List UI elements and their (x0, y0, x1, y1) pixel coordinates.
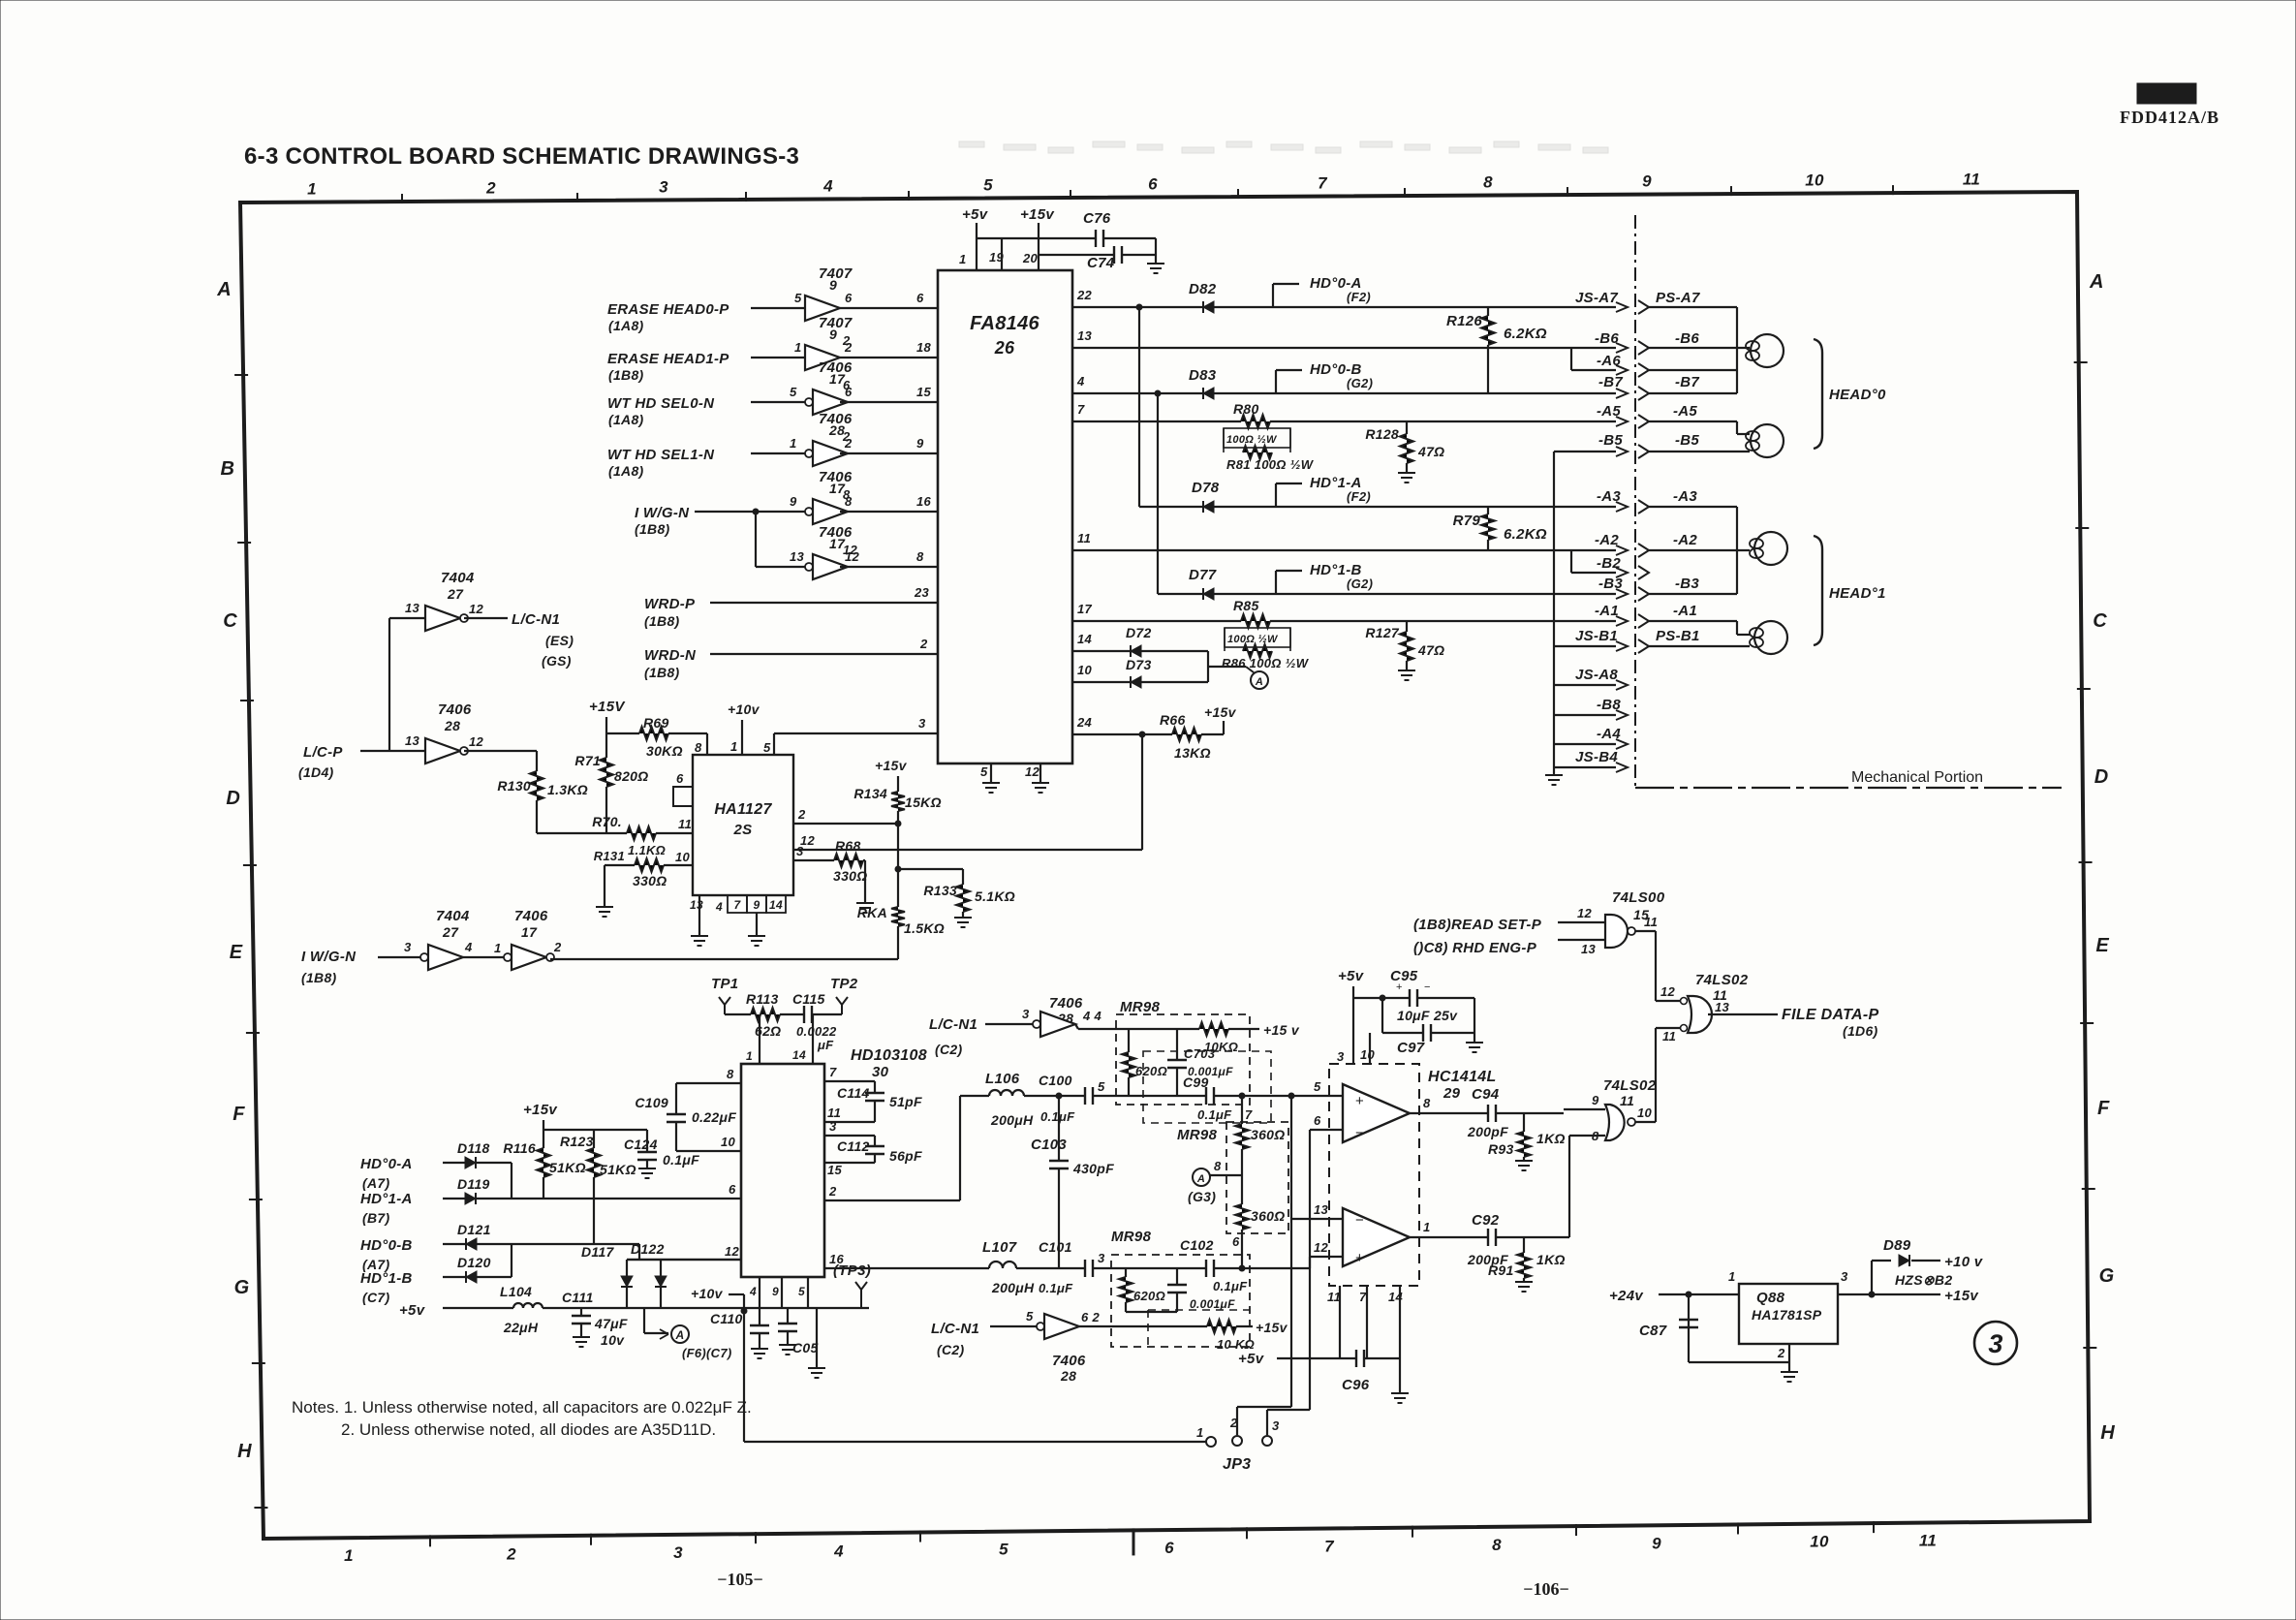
svg-text:(C2): (C2) (937, 1342, 964, 1357)
svg-text:5: 5 (999, 1541, 1008, 1559)
svg-text:-B2: -B2 (1597, 555, 1621, 572)
svg-text:WT HD SEL1-N: WT HD SEL1-N (607, 447, 715, 463)
svg-text:8: 8 (1592, 1129, 1599, 1143)
svg-text:JP3: JP3 (1223, 1456, 1251, 1473)
svg-text:+15V: +15V (589, 699, 626, 715)
svg-text:13: 13 (405, 733, 420, 748)
svg-text:−: − (1424, 981, 1430, 993)
svg-text:MR98: MR98 (1120, 999, 1161, 1015)
svg-text:-A2: -A2 (1595, 532, 1619, 548)
svg-text:R68: R68 (835, 838, 861, 854)
svg-text:-A6: -A6 (1597, 353, 1621, 369)
svg-text:3: 3 (659, 177, 668, 196)
svg-text:R86 100Ω ½W: R86 100Ω ½W (1222, 656, 1310, 670)
svg-text:TP2: TP2 (830, 976, 858, 992)
svg-text:11: 11 (1662, 1029, 1676, 1044)
svg-text:1.3KΩ: 1.3KΩ (547, 782, 588, 797)
svg-text:+15v: +15v (1944, 1288, 1979, 1304)
svg-text:+10 v: +10 v (1944, 1254, 1984, 1270)
svg-text:D: D (226, 788, 240, 809)
svg-text:13KΩ: 13KΩ (1174, 745, 1211, 761)
svg-text:13: 13 (405, 601, 420, 615)
svg-text:5: 5 (1314, 1079, 1321, 1094)
svg-text:17: 17 (521, 924, 538, 940)
svg-text:L107: L107 (982, 1239, 1017, 1256)
svg-text:51KΩ: 51KΩ (549, 1160, 586, 1175)
svg-text:+10v: +10v (691, 1286, 724, 1301)
svg-text:15: 15 (916, 385, 932, 399)
svg-text:1: 1 (794, 340, 802, 355)
svg-text:11: 11 (678, 817, 692, 831)
svg-text:JS-B1: JS-B1 (1575, 628, 1618, 644)
svg-text:HEAD°1: HEAD°1 (1829, 585, 1886, 602)
svg-text:360Ω: 360Ω (1251, 1127, 1286, 1142)
svg-text:C703: C703 (1184, 1046, 1216, 1061)
svg-text:6.2KΩ: 6.2KΩ (1504, 526, 1547, 543)
svg-text:2: 2 (506, 1545, 516, 1564)
svg-text:-A1: -A1 (1673, 603, 1697, 619)
svg-text:6: 6 (729, 1182, 736, 1197)
svg-text:+15v: +15v (1204, 704, 1237, 720)
svg-text:12: 12 (1660, 984, 1676, 999)
svg-text:R85: R85 (1233, 598, 1259, 613)
svg-text:L106: L106 (985, 1071, 1020, 1087)
svg-text:23: 23 (914, 585, 930, 600)
svg-text:12: 12 (725, 1244, 740, 1259)
svg-text:C76: C76 (1083, 210, 1111, 227)
svg-text:74LS02: 74LS02 (1695, 972, 1749, 988)
svg-text:FILE DATA-P: FILE DATA-P (1782, 1007, 1878, 1023)
svg-text:12: 12 (469, 602, 484, 616)
svg-text:D118: D118 (457, 1140, 490, 1156)
svg-text:L/C-P: L/C-P (303, 744, 343, 761)
svg-text:(A7): (A7) (362, 1175, 389, 1191)
svg-text:HZS⊗B2: HZS⊗B2 (1895, 1272, 1952, 1288)
svg-text:13: 13 (690, 898, 703, 912)
svg-text:+5v: +5v (1238, 1351, 1265, 1367)
svg-text:C87: C87 (1639, 1323, 1667, 1339)
svg-text:3: 3 (404, 940, 412, 954)
svg-text:6: 6 (1164, 1539, 1174, 1557)
svg-text:JS-A7: JS-A7 (1575, 290, 1618, 306)
svg-text:R130: R130 (497, 778, 531, 794)
svg-text:F: F (233, 1104, 245, 1125)
svg-text:-A3: -A3 (1673, 488, 1697, 505)
svg-text:D72: D72 (1126, 625, 1152, 640)
svg-text:+: + (1396, 981, 1402, 993)
svg-text:()C8) RHD ENG-P: ()C8) RHD ENG-P (1413, 940, 1537, 956)
svg-text:2: 2 (1777, 1346, 1785, 1360)
svg-text:9: 9 (1652, 1534, 1661, 1552)
svg-text:R134: R134 (853, 786, 887, 801)
svg-text:L/C-N1: L/C-N1 (931, 1321, 979, 1337)
svg-text:7404: 7404 (441, 570, 475, 586)
svg-text:11: 11 (1919, 1532, 1937, 1550)
svg-text:(G3): (G3) (1188, 1189, 1216, 1204)
svg-text:(TP3): (TP3) (833, 1262, 871, 1279)
svg-text:(1A8): (1A8) (608, 412, 644, 427)
svg-text:10: 10 (721, 1135, 736, 1149)
svg-text:5: 5 (1098, 1079, 1105, 1094)
svg-text:5: 5 (980, 764, 988, 779)
svg-text:-B5: -B5 (1675, 432, 1699, 449)
svg-text:8: 8 (916, 549, 924, 564)
svg-text:−: − (1355, 1125, 1364, 1141)
svg-text:0.22μF: 0.22μF (692, 1109, 736, 1125)
svg-text:(G2): (G2) (1347, 376, 1373, 390)
svg-text:6: 6 (1148, 175, 1158, 194)
svg-text:(1D4): (1D4) (298, 764, 334, 780)
svg-text:14: 14 (1388, 1290, 1404, 1304)
svg-text:13: 13 (1314, 1202, 1329, 1217)
svg-text:-A2: -A2 (1673, 532, 1697, 548)
svg-text:9: 9 (916, 436, 924, 451)
svg-text:H: H (237, 1441, 252, 1462)
svg-text:7404: 7404 (436, 908, 470, 924)
svg-text:E: E (230, 942, 243, 963)
svg-text:1: 1 (746, 1049, 753, 1063)
svg-text:2S: 2S (733, 822, 753, 838)
svg-text:+15v: +15v (1256, 1320, 1288, 1335)
svg-text:29: 29 (1443, 1085, 1461, 1102)
svg-text:C111: C111 (562, 1290, 594, 1305)
svg-text:-B7: -B7 (1675, 374, 1699, 390)
svg-text:D121: D121 (457, 1222, 491, 1237)
svg-text:R81 100Ω ½W: R81 100Ω ½W (1226, 457, 1315, 472)
svg-text:4: 4 (464, 940, 473, 954)
svg-text:5.1KΩ: 5.1KΩ (975, 888, 1015, 904)
svg-text:D119: D119 (457, 1176, 490, 1192)
svg-text:D: D (2094, 766, 2109, 788)
svg-text:(1A8): (1A8) (608, 463, 644, 479)
svg-text:R66: R66 (1160, 712, 1186, 728)
svg-text:0.1μF: 0.1μF (1039, 1281, 1073, 1295)
svg-text:11: 11 (1644, 915, 1658, 929)
svg-text:100Ω ½W: 100Ω ½W (1226, 434, 1278, 446)
svg-text:(C7): (C7) (362, 1290, 389, 1305)
svg-text:24: 24 (1076, 715, 1093, 730)
svg-text:10: 10 (1077, 663, 1093, 677)
svg-text:+15v: +15v (875, 758, 908, 773)
svg-text:8: 8 (1492, 1536, 1502, 1554)
svg-text:1: 1 (1196, 1425, 1204, 1440)
svg-text:R80: R80 (1233, 401, 1259, 417)
svg-text:6: 6 (845, 291, 853, 305)
svg-text:C114: C114 (837, 1085, 870, 1101)
svg-text:D120: D120 (457, 1255, 491, 1270)
svg-text:47Ω: 47Ω (1417, 642, 1444, 658)
svg-text:200pF: 200pF (1467, 1124, 1508, 1139)
svg-text:1: 1 (494, 941, 502, 955)
svg-text:16: 16 (916, 494, 932, 509)
svg-text:1: 1 (790, 436, 797, 451)
svg-text:A: A (2089, 271, 2104, 293)
svg-text:G: G (2099, 1265, 2115, 1287)
svg-text:6-3 CONTROL BOARD SCHEMATIC DR: 6-3 CONTROL BOARD SCHEMATIC DRAWINGS-3 (244, 143, 799, 170)
svg-text:TP1: TP1 (711, 976, 738, 992)
svg-text:7: 7 (734, 898, 742, 912)
svg-text:26: 26 (994, 338, 1015, 358)
svg-text:FDD412A/B: FDD412A/B (2120, 108, 2219, 127)
svg-text:-B7: -B7 (1598, 374, 1623, 390)
svg-text:4: 4 (822, 176, 833, 195)
svg-text:(ES): (ES) (545, 633, 574, 648)
svg-text:1: 1 (1423, 1220, 1431, 1234)
svg-text:I W/G-N: I W/G-N (635, 505, 690, 521)
svg-text:100Ω ½W: 100Ω ½W (1227, 634, 1279, 645)
svg-text:7: 7 (1245, 1107, 1253, 1122)
svg-text:+15v: +15v (1020, 206, 1055, 223)
svg-text:10μF 25v: 10μF 25v (1397, 1008, 1458, 1023)
svg-text:13: 13 (790, 549, 805, 564)
svg-text:11: 11 (1963, 171, 1980, 189)
svg-text:14: 14 (1077, 632, 1093, 646)
svg-text:R127: R127 (1365, 625, 1400, 640)
svg-text:D83: D83 (1189, 367, 1217, 384)
svg-text:8: 8 (695, 740, 702, 755)
svg-text:6.2KΩ: 6.2KΩ (1504, 326, 1547, 342)
svg-text:7: 7 (1077, 402, 1085, 417)
svg-text:11: 11 (827, 1106, 841, 1120)
svg-text:74LS00: 74LS00 (1612, 889, 1665, 906)
svg-text:2: 2 (828, 1184, 837, 1199)
svg-text:3: 3 (1337, 1049, 1345, 1064)
svg-text:-B8: -B8 (1597, 697, 1621, 713)
svg-text:360Ω: 360Ω (1251, 1208, 1286, 1224)
svg-text:C112: C112 (837, 1138, 870, 1154)
svg-text:(C2): (C2) (935, 1042, 962, 1057)
svg-text:3: 3 (1988, 1329, 2002, 1358)
svg-text:200μH: 200μH (991, 1280, 1035, 1295)
svg-text:C110: C110 (710, 1311, 743, 1326)
svg-text:+5v: +5v (1338, 968, 1365, 984)
svg-text:HD°1-A: HD°1-A (360, 1191, 413, 1207)
svg-text:14: 14 (769, 898, 783, 912)
svg-text:4 4: 4 4 (1082, 1009, 1101, 1023)
svg-text:Notes. 1. Unless otherwise n: Notes. 1. Unless otherwise noted, all ca… (292, 1398, 752, 1417)
svg-text:C95: C95 (1390, 968, 1418, 984)
svg-text:R71: R71 (574, 753, 601, 768)
svg-text:L104: L104 (500, 1284, 532, 1299)
svg-text:10v: 10v (601, 1332, 625, 1348)
svg-text:-B6: -B6 (1595, 330, 1619, 347)
svg-text:7: 7 (829, 1065, 837, 1079)
svg-text:0.001μF: 0.001μF (1190, 1297, 1235, 1311)
svg-text:(1B8): (1B8) (635, 521, 670, 537)
svg-text:C102: C102 (1180, 1237, 1214, 1253)
svg-text:HD°0-A: HD°0-A (360, 1156, 413, 1172)
svg-text:0.1μF: 0.1μF (663, 1152, 699, 1168)
svg-text:5: 5 (763, 740, 771, 755)
svg-text:5: 5 (790, 385, 797, 399)
svg-text:1KΩ: 1KΩ (1536, 1131, 1566, 1146)
svg-text:ERASE HEAD1-P: ERASE HEAD1-P (607, 351, 729, 367)
svg-text:A: A (216, 279, 232, 300)
svg-text:R79: R79 (1453, 513, 1481, 529)
svg-text:9: 9 (754, 898, 760, 912)
svg-text:28: 28 (1060, 1368, 1076, 1384)
svg-text:7406: 7406 (514, 908, 548, 924)
svg-text:620Ω: 620Ω (1133, 1289, 1165, 1303)
svg-text:−: − (1355, 1212, 1364, 1229)
svg-text:47μF: 47μF (594, 1316, 628, 1331)
svg-text:10: 10 (675, 850, 691, 864)
svg-text:330Ω: 330Ω (633, 873, 667, 888)
svg-text:C124: C124 (624, 1137, 658, 1152)
svg-text:HA1127: HA1127 (714, 801, 772, 818)
svg-text:-B3: -B3 (1675, 576, 1699, 592)
svg-text:5: 5 (983, 176, 993, 195)
svg-text:47Ω: 47Ω (1417, 444, 1444, 459)
svg-text:9: 9 (772, 1285, 779, 1298)
svg-text:10: 10 (1360, 1047, 1376, 1062)
svg-text:15KΩ: 15KΩ (905, 794, 942, 810)
svg-text:9: 9 (829, 327, 837, 342)
svg-text:R113: R113 (746, 991, 779, 1007)
svg-text:(F2): (F2) (1347, 489, 1371, 504)
svg-text:R131: R131 (594, 849, 625, 863)
svg-text:620Ω: 620Ω (1135, 1064, 1167, 1078)
svg-text:HD°0-B: HD°0-B (360, 1237, 413, 1254)
svg-text:1: 1 (1728, 1269, 1736, 1284)
svg-text:-A5: -A5 (1597, 403, 1621, 420)
svg-text:R123: R123 (560, 1134, 594, 1149)
svg-text:R126: R126 (1446, 313, 1482, 329)
svg-text:9: 9 (829, 277, 837, 293)
svg-text:-A3: -A3 (1597, 488, 1621, 505)
svg-text:820Ω: 820Ω (614, 768, 649, 784)
svg-text:+5v: +5v (962, 206, 989, 223)
svg-text:HC1414L: HC1414L (1428, 1069, 1497, 1085)
svg-text:+10v: +10v (728, 701, 760, 717)
svg-text:JS-B4: JS-B4 (1575, 749, 1618, 765)
svg-text:30: 30 (872, 1064, 889, 1080)
svg-text:6: 6 (845, 385, 853, 399)
svg-text:27: 27 (447, 586, 464, 602)
svg-text:10: 10 (1805, 171, 1824, 190)
svg-text:−106−: −106− (1523, 1579, 1569, 1599)
svg-text:8: 8 (727, 1067, 734, 1081)
svg-text:27: 27 (442, 924, 459, 940)
svg-text:10: 10 (1810, 1533, 1829, 1551)
svg-text:C05: C05 (792, 1340, 819, 1355)
svg-text:51KΩ: 51KΩ (600, 1162, 636, 1177)
svg-text:-A5: -A5 (1673, 403, 1697, 420)
svg-text:PS-B1: PS-B1 (1656, 628, 1700, 644)
svg-text:13: 13 (1077, 328, 1093, 343)
svg-text:JS-A8: JS-A8 (1575, 667, 1618, 683)
svg-text:RKA: RKA (857, 905, 887, 920)
svg-text:L/C-N1: L/C-N1 (512, 611, 560, 628)
svg-text:D89: D89 (1883, 1237, 1911, 1254)
svg-text:+15v: +15v (523, 1102, 558, 1118)
svg-text:5: 5 (794, 291, 802, 305)
svg-text:A: A (675, 1328, 685, 1342)
svg-text:9: 9 (790, 494, 797, 509)
svg-text:10 KΩ: 10 KΩ (1217, 1337, 1255, 1352)
svg-text:R116: R116 (503, 1140, 536, 1156)
svg-text:(1B8): (1B8) (644, 665, 680, 680)
svg-text:B: B (221, 458, 235, 480)
svg-text:-B6: -B6 (1675, 330, 1699, 347)
svg-text:+15 v: +15 v (1263, 1022, 1300, 1038)
svg-text:12: 12 (469, 734, 484, 749)
svg-text:C94: C94 (1472, 1086, 1500, 1103)
svg-text:(G2): (G2) (1347, 576, 1373, 591)
svg-text:3: 3 (918, 716, 926, 731)
svg-text:7406: 7406 (1052, 1353, 1086, 1369)
svg-text:11: 11 (1620, 1093, 1634, 1108)
svg-text:Mechanical Portion: Mechanical Portion (1851, 769, 1983, 786)
svg-text:C74: C74 (1087, 255, 1115, 271)
svg-text:51pF: 51pF (889, 1094, 922, 1109)
svg-text:+: + (1355, 1093, 1364, 1109)
svg-text:(F6)(C7): (F6)(C7) (682, 1346, 732, 1360)
svg-text:(B7): (B7) (362, 1210, 389, 1226)
svg-text:C96: C96 (1342, 1377, 1370, 1393)
svg-text:WT HD SEL0-N: WT HD SEL0-N (607, 395, 715, 412)
svg-text:-A1: -A1 (1595, 603, 1619, 619)
svg-text:1: 1 (730, 739, 738, 754)
svg-text:12: 12 (1314, 1240, 1329, 1255)
svg-text:C101: C101 (1039, 1239, 1072, 1255)
svg-text:HD103108: HD103108 (851, 1047, 927, 1064)
svg-text:D77: D77 (1189, 567, 1217, 583)
svg-text:D82: D82 (1189, 281, 1217, 297)
svg-text:E: E (2095, 935, 2109, 956)
svg-text:4: 4 (749, 1285, 757, 1298)
svg-text:−105−: −105− (717, 1570, 763, 1589)
svg-text:A: A (1196, 1173, 1205, 1185)
svg-text:HD°1-B: HD°1-B (360, 1270, 413, 1287)
svg-text:22μH: 22μH (503, 1320, 539, 1335)
svg-text:ERASE HEAD0-P: ERASE HEAD0-P (607, 301, 729, 318)
svg-text:3: 3 (1841, 1269, 1848, 1284)
svg-text:L/C-N1: L/C-N1 (929, 1016, 977, 1033)
svg-text:C92: C92 (1472, 1212, 1500, 1229)
svg-text:20: 20 (1022, 251, 1039, 265)
svg-text:Q88: Q88 (1756, 1290, 1785, 1306)
svg-text:13: 13 (1715, 1000, 1730, 1014)
svg-text:12: 12 (1577, 906, 1593, 920)
svg-text:C109: C109 (635, 1095, 668, 1110)
svg-text:G: G (234, 1277, 250, 1298)
svg-text:28: 28 (444, 718, 460, 733)
svg-text:0.1μF: 0.1μF (1213, 1279, 1248, 1293)
svg-text:(1D6): (1D6) (1843, 1023, 1878, 1039)
svg-text:C103: C103 (1031, 1137, 1067, 1153)
svg-text:3: 3 (1022, 1007, 1030, 1021)
svg-text:C100: C100 (1039, 1073, 1072, 1088)
svg-text:3: 3 (1098, 1251, 1105, 1265)
svg-text:C: C (2093, 610, 2107, 632)
svg-text:D117: D117 (581, 1244, 615, 1260)
svg-text:C: C (223, 610, 237, 632)
svg-text:-B3: -B3 (1598, 576, 1623, 592)
svg-text:30KΩ: 30KΩ (646, 743, 683, 759)
svg-text:7: 7 (1318, 174, 1328, 193)
svg-text:6 2: 6 2 (1081, 1310, 1100, 1324)
svg-text:2: 2 (797, 807, 806, 822)
svg-text:2: 2 (844, 436, 853, 451)
svg-text:2: 2 (485, 178, 496, 197)
svg-text:+24v: +24v (1609, 1288, 1644, 1304)
svg-text:+: + (1355, 1250, 1364, 1266)
svg-text:C115: C115 (792, 991, 825, 1007)
svg-text:3: 3 (796, 844, 804, 858)
svg-text:2: 2 (844, 340, 853, 355)
svg-text:I W/G-N: I W/G-N (301, 949, 357, 965)
